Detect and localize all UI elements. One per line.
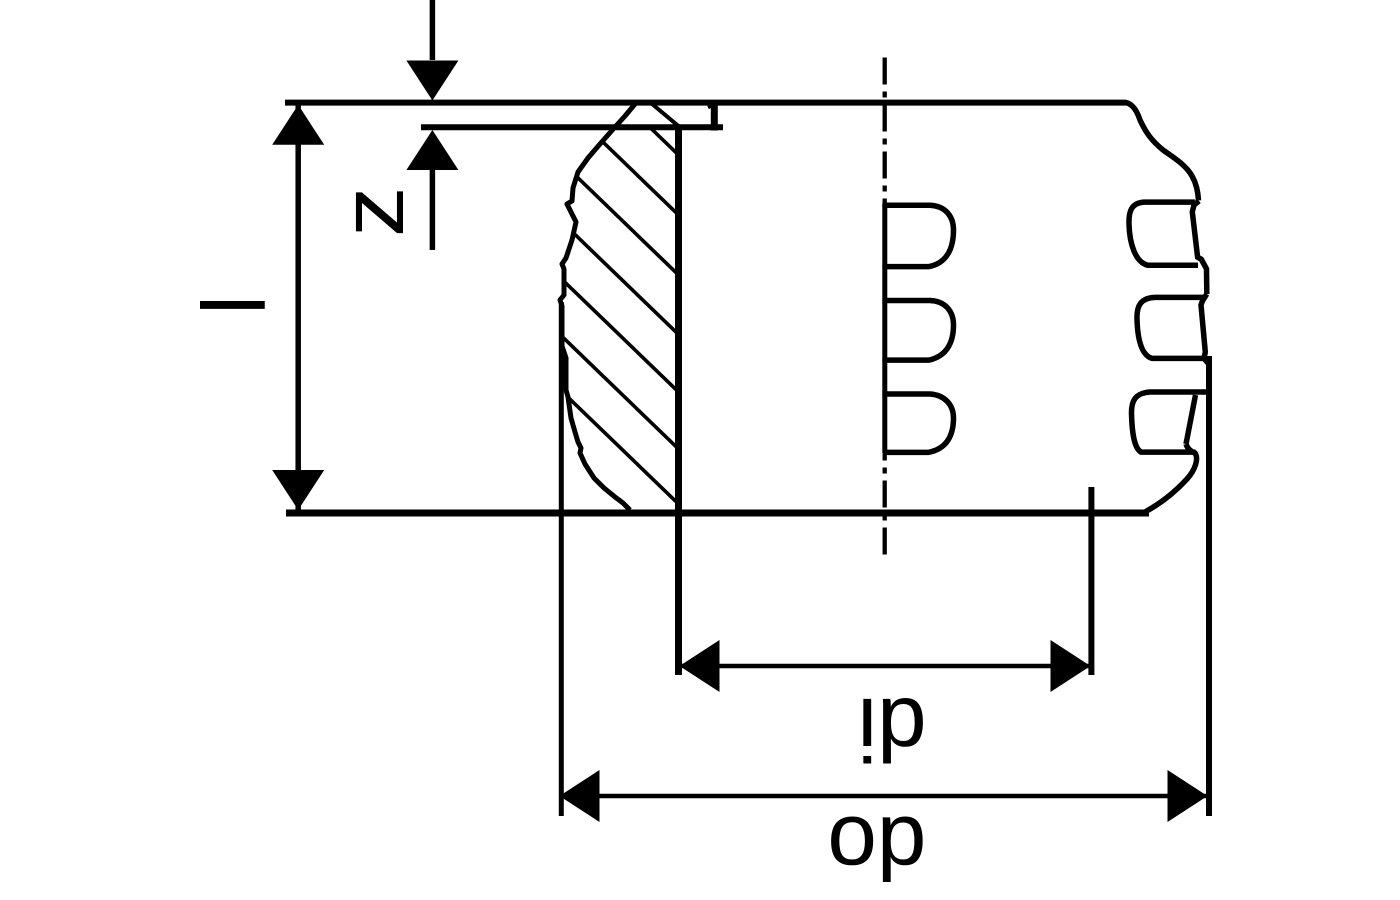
svg-text:l: l — [184, 295, 284, 315]
centerline (dash-dot axis) — [883, 58, 887, 557]
svg-text:do: do — [827, 798, 926, 898]
arrow di right — [1051, 640, 1091, 692]
arrow do right — [1168, 770, 1208, 822]
mouth step vertical — [711, 104, 718, 131]
z top leader line — [430, 0, 436, 60]
svg-text:di: di — [857, 680, 926, 780]
bore far-wall edge (solid on centerline) — [882, 204, 887, 453]
arrow z top (down) — [406, 61, 458, 101]
top right S-curve shoulder — [1126, 103, 1199, 201]
dimension do line — [560, 794, 1208, 799]
dimension l line — [295, 105, 301, 510]
z bottom leader line — [430, 170, 436, 250]
bore left edge / di extension line — [675, 125, 682, 675]
right outer edge / do extension line — [1206, 356, 1212, 816]
arrow l bottom — [272, 470, 324, 510]
inner rib A — [882, 205, 953, 266]
outer groove 3 — [1131, 392, 1207, 452]
do left extension line — [559, 302, 564, 816]
section hatching — [550, 31, 700, 525]
arrow do left — [560, 770, 600, 822]
top outer surface line (closed end of cap) with dimension extension — [285, 100, 1127, 106]
mouth step chamfer — [708, 103, 717, 108]
bore corner chamfer — [652, 104, 682, 129]
di right extension line — [1088, 487, 1094, 675]
bottom rim line (mouth of cap) with l extension — [286, 510, 1149, 517]
arrow di left — [680, 640, 720, 692]
inner ceiling line (z extension / bore top) — [421, 124, 723, 130]
inner rib C — [882, 394, 953, 452]
outer groove 2 — [1201, 294, 1209, 364]
inner rib B — [882, 301, 953, 361]
svg-text:z: z — [322, 186, 422, 237]
outer groove 1 — [1192, 201, 1207, 294]
arrow l top — [272, 105, 324, 145]
arrow z bottom (up) — [406, 130, 458, 170]
dimension di line — [680, 664, 1090, 669]
bottom right corner arc — [1144, 444, 1197, 513]
